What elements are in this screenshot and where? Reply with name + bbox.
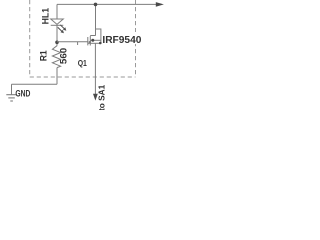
wire: LED cathode to gate node bbox=[56, 25, 58, 45]
LED HL1 cathode bar bbox=[51, 24, 64, 26]
svg-text:Q1: Q1 bbox=[78, 59, 88, 68]
node: junction dot on supply rail bbox=[94, 3, 98, 7]
arrow: to SA1 down bbox=[93, 94, 98, 101]
transistor Q1 channel bar bbox=[89, 36, 91, 46]
svg-text:R1: R1 bbox=[38, 50, 49, 62]
transistor Q1 body top bbox=[90, 35, 96, 37]
wire: LED anode drop from rail bbox=[56, 4, 58, 19]
node: junction dot bulk bbox=[91, 39, 94, 42]
resistor R1 zigzag bbox=[52, 46, 60, 68]
transistor Q1 gate arrow bbox=[88, 41, 91, 44]
LED emission arrow 2 bbox=[58, 27, 64, 33]
svg-text:IRF9540: IRF9540 bbox=[102, 34, 141, 46]
white gap behind part number bbox=[103, 32, 143, 44]
arrow: supply rail continuation right bbox=[156, 2, 164, 7]
dashed selection box right edge bbox=[135, 0, 137, 77]
ground symbol bbox=[6, 95, 16, 101]
wire: ground drop bbox=[11, 84, 13, 94]
transistor Q1 body bottom bbox=[88, 42, 101, 44]
svg-text:GND: GND bbox=[15, 89, 30, 99]
wire: source lead down to SA1 bbox=[94, 43, 96, 95]
gate pin tick bbox=[77, 42, 79, 45]
node: junction dot gate branch bbox=[55, 41, 59, 45]
svg-text:HL1: HL1 bbox=[41, 8, 51, 25]
LED HL1 triangle bbox=[51, 19, 64, 24]
wire: ground rail horizontal bbox=[12, 83, 58, 85]
svg-text:560: 560 bbox=[59, 48, 70, 64]
transistor Q1 bulk stub bbox=[90, 39, 101, 41]
svg-text:to SA1: to SA1 bbox=[97, 84, 107, 110]
wire: top supply rail bbox=[57, 3, 157, 5]
wire: gate wire to Q1 bbox=[57, 41, 88, 43]
transistor Q1 gate bar bbox=[87, 37, 89, 45]
node: junction dot source corner bbox=[99, 42, 102, 45]
wire: resistor bottom to ground rail bbox=[56, 68, 58, 85]
wire: drain lead from rail bbox=[95, 4, 97, 35]
dashed selection box bottom edge bbox=[30, 76, 136, 78]
LED emission arrow 1 bbox=[60, 25, 66, 31]
dashed selection box left edge bbox=[29, 0, 31, 77]
transistor Q1 substrate jog bbox=[96, 29, 101, 43]
